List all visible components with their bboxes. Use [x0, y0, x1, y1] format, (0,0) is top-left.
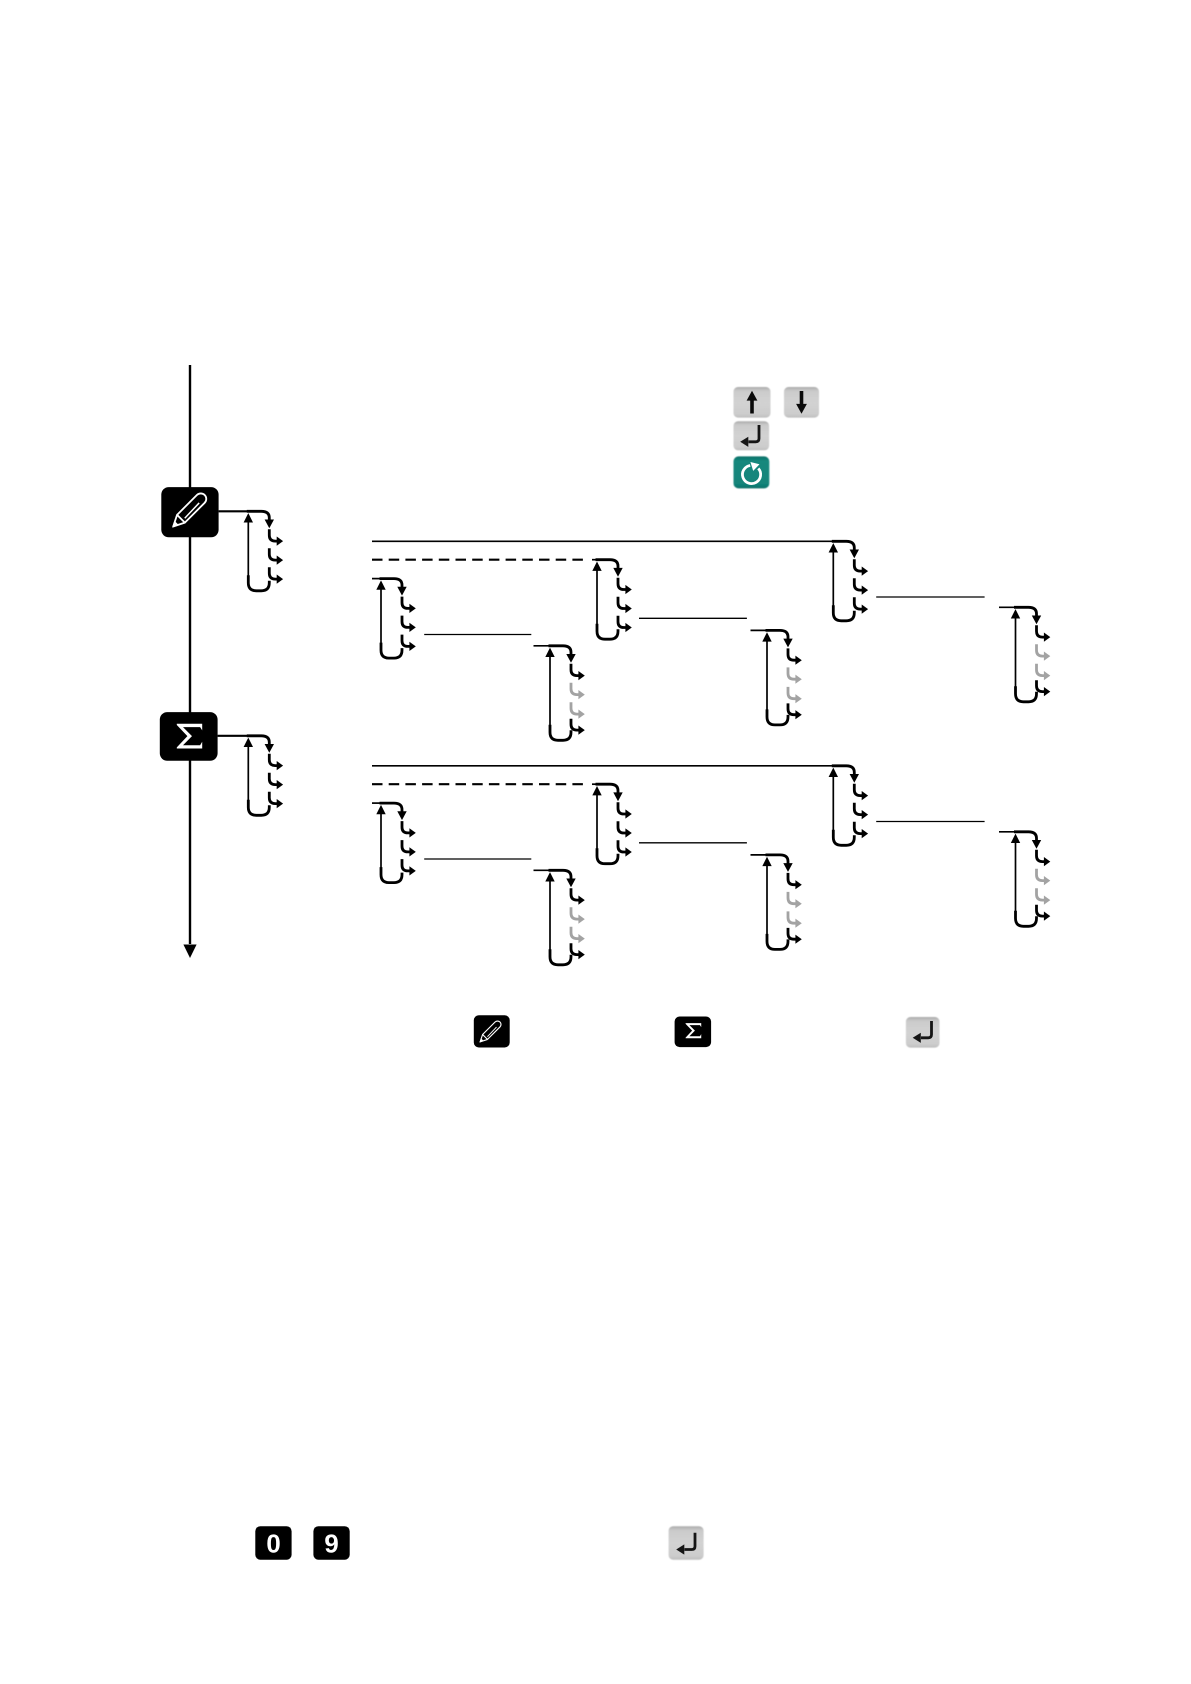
- wire connector c4: [424, 858, 531, 860]
- wire connector c1: [424, 634, 531, 636]
- row1 expert dashed line: [372, 559, 587, 561]
- edit-mode box (pencil): [161, 487, 218, 537]
- key down: [784, 387, 819, 418]
- loop L7: [1011, 607, 1051, 702]
- loop L12: [762, 855, 802, 950]
- wire connector c3: [876, 596, 984, 598]
- wire into loop L12: [751, 854, 771, 856]
- loop L1: [244, 511, 284, 591]
- loop L9: [376, 803, 416, 883]
- wire connector c6: [876, 821, 984, 823]
- loop L5: [762, 630, 802, 725]
- loop L14: [1011, 832, 1051, 927]
- key 9: [313, 1526, 349, 1560]
- key escape (teal): [734, 456, 770, 488]
- key up: [734, 387, 771, 418]
- wire connector c2: [639, 617, 747, 619]
- main flow vertical line: [189, 365, 191, 944]
- wire sigma box to loop L8: [218, 735, 259, 737]
- loop L2: [376, 579, 416, 659]
- wire pencil box to loop L1: [219, 510, 259, 512]
- loop L8: [244, 736, 284, 816]
- loop L11: [545, 870, 585, 965]
- loop L3: [592, 560, 632, 640]
- key enter bottom: [669, 1526, 704, 1560]
- loop L10: [592, 784, 632, 864]
- display-mode box (sigma): [160, 712, 218, 761]
- loop L13: [829, 766, 869, 846]
- legend key sigma: [675, 1017, 712, 1048]
- row2 expert dashed line: [372, 783, 587, 785]
- key enter: [734, 421, 770, 450]
- key 0: [255, 1526, 291, 1560]
- wire leader L9: [372, 802, 384, 804]
- legend key pencil: [474, 1015, 510, 1047]
- wire into loop L5: [751, 629, 771, 631]
- wire leader L2: [372, 578, 384, 580]
- row2 main menu leader line: [372, 765, 845, 767]
- wire into loop L10: [592, 783, 601, 785]
- wire into loop L4: [534, 645, 554, 647]
- wire into loop L14: [999, 831, 1018, 833]
- legend key enter: [906, 1017, 940, 1048]
- wire into loop L11: [534, 869, 554, 871]
- row1 main menu leader line: [372, 540, 845, 542]
- main flow arrowhead: [183, 945, 196, 959]
- loop L6: [829, 541, 869, 621]
- wire into loop L3: [592, 559, 601, 561]
- loop L4: [545, 646, 585, 741]
- wire into loop L7: [999, 606, 1018, 608]
- wire connector c5: [639, 842, 747, 844]
